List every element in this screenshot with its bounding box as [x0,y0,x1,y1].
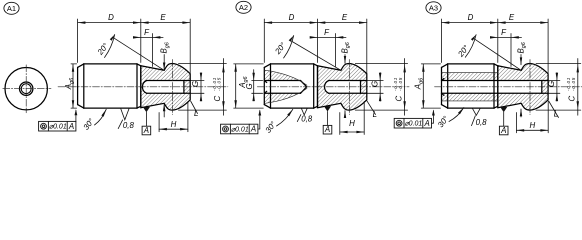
leader 30deg chamfer A1 [81,109,106,131]
label L edge A2 [367,101,377,119]
bore G in ball A3 [442,81,549,94]
dimension B g6 A3 [516,42,527,117]
dimension A g6 A2 [234,64,264,108]
svg-text:L: L [373,110,377,119]
section hatching ball A1 [141,64,190,111]
label L edge A1 [191,101,199,118]
centerline ball vertical A1 [172,60,174,115]
surface roughness 0,8 A3 [472,108,488,127]
dimension E A2 [318,13,367,74]
svg-text:⌀0.01: ⌀0.01 [231,127,249,134]
surface roughness 0,8 A1 [118,108,134,130]
datum A flag A3 [499,107,508,135]
centerline ball vertical A2 [348,60,350,115]
dimension G bore A2 [367,73,383,101]
bore G from left face A2 [264,81,306,94]
svg-text:C: C [394,96,403,102]
datum A flag A1 [142,107,151,135]
svg-text:D: D [468,13,474,22]
dimension B g6 A1 [160,42,171,117]
dimension A g6 A3 [414,64,441,108]
dimension G bore A3 [547,73,560,101]
svg-text:C: C [568,96,577,102]
svg-text:-0.05: -0.05 [571,77,576,91]
svg-text:0,8: 0,8 [301,114,313,123]
svg-text:L: L [554,110,558,119]
svg-text:A: A [324,125,330,134]
dimension F A3 [490,28,522,67]
dimension H A3 [516,102,548,133]
dimension E A3 [498,13,548,74]
broken-out section hatching body A2 [264,70,307,103]
dimension B g6 A2 [340,42,351,118]
panel A2 label [236,1,251,13]
angular dimension 20deg taper A1 [95,35,163,70]
ball end with flat A1 [141,64,190,111]
svg-text:⌀0.01: ⌀0.01 [49,124,67,131]
svg-text:E: E [509,13,515,22]
svg-text:H: H [349,119,355,128]
surface roughness 0,8 A2 [297,108,312,123]
panel A1 label [4,2,19,14]
dimension D A1 [78,13,141,63]
svg-text:A: A [250,125,256,134]
bore G in ball A1 [142,81,190,94]
svg-text:G: G [191,81,200,87]
bore G in ball A2 [325,81,367,94]
svg-text:⌀0.01: ⌀0.01 [404,121,422,128]
svg-text:A2: A2 [239,3,248,12]
svg-text:C: C [213,96,222,102]
centerline horizontal A2 [257,86,409,88]
svg-text:A3: A3 [429,4,438,13]
dimension G bore A1 [191,73,204,101]
dimension D A2 [264,13,317,63]
dimension F A1 [133,28,163,67]
section hatching ball A3 [498,64,548,111]
svg-text:H: H [171,120,177,129]
leader 30deg chamfer A2 [263,109,292,134]
dimension F A2 [310,28,346,67]
svg-text:-0.05: -0.05 [217,77,222,91]
svg-text:E: E [342,13,348,22]
dimension E A1 [141,13,190,74]
dimension C with tolerance A2 [355,59,407,116]
dimension D A3 [442,13,498,63]
section boundary curves body A2 [264,70,307,103]
body cylinder A2 [264,64,317,108]
dimension H A1 [159,102,188,132]
feature control frame concentricity A3 [394,110,435,129]
centerline horizontal A1 [58,86,228,88]
svg-text:0,8: 0,8 [123,121,135,130]
front view centerlines A1 [3,65,51,113]
feature control frame concentricity A2 [221,110,262,134]
body cylinder A1 [78,64,141,108]
svg-text:A: A [423,119,429,128]
dimension A g6 A1 [64,64,76,108]
svg-text:A: A [500,126,506,135]
ball end with flat A2 [318,64,367,111]
body cylinder A3 [442,64,498,108]
dimension G left bore A2 [245,70,263,101]
svg-text:G: G [547,81,556,87]
svg-text:H: H [529,121,535,130]
centerline ball vertical A3 [529,60,531,115]
svg-text:-0.05: -0.05 [398,77,403,91]
panel A3 label [426,2,441,14]
label L edge A3 [549,101,559,119]
ball end with flat A3 [498,64,548,111]
svg-text:G: G [245,83,254,89]
dimension H A2 [340,102,364,135]
section hatching ball A2 [318,64,367,111]
svg-text:D: D [289,13,295,22]
svg-text:G: G [370,81,379,87]
angular dimension 20deg taper A3 [456,35,521,70]
broken-out section hatching body A3 [442,73,498,101]
centerline horizontal A3 [435,86,582,88]
svg-text:0,8: 0,8 [476,118,488,127]
front view outer circle A1 [5,68,47,110]
svg-text:A1: A1 [7,4,16,13]
angular dimension 20deg taper A2 [273,36,340,70]
section boundary lines body A3 [442,73,498,101]
svg-text:A: A [68,122,74,131]
leader 30deg chamfer A3 [436,108,464,130]
feature control frame concentricity A1 [39,109,78,131]
front view bore circles A1 [20,82,33,95]
svg-text:A: A [143,126,149,135]
dimension C with tolerance A3 [536,59,581,116]
datum A flag A2 [323,106,332,134]
svg-text:E: E [160,13,166,22]
svg-text:D: D [108,13,114,22]
dimension C with tolerance A1 [179,59,227,116]
